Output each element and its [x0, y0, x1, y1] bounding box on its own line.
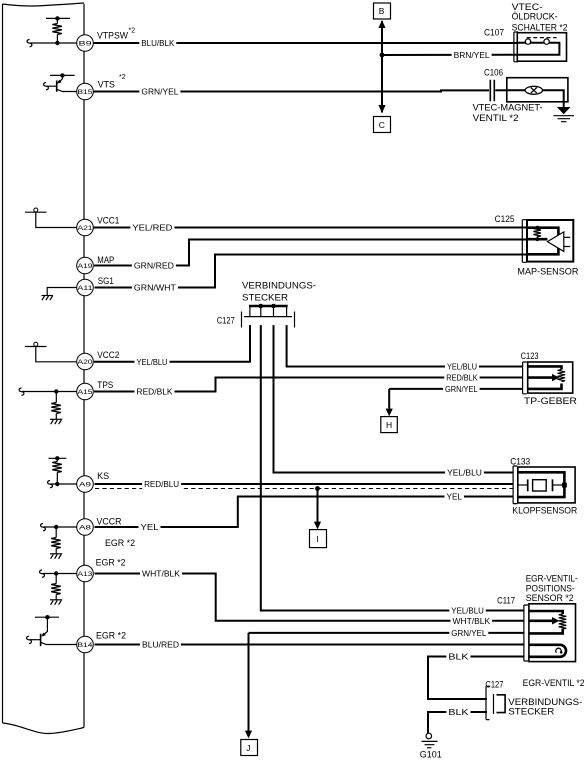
arrow to off-page connector J — [245, 633, 252, 739]
wire label YEL/BLU (A20) — [135, 357, 170, 367]
svg-text:YEL: YEL — [447, 493, 463, 502]
VTEC solenoid valve (VTEC-MAGNET-VENTIL) — [507, 78, 568, 102]
label C117 — [497, 595, 515, 606]
wire GRN/YEL (B15 to VTEC solenoid valve C106) — [93, 90, 508, 91]
wire C127 pin4 to TP sensor YEL/BLU — [287, 325, 523, 366]
connector C107 — [514, 32, 518, 62]
label C125 — [495, 214, 515, 225]
wire label YEL/BLU (TP sensor) — [445, 361, 479, 371]
wire label RED/BLK (TP sensor) — [444, 372, 479, 382]
wire label RED/BLK (A15) — [135, 386, 175, 396]
label VTEC-MAGNET-VENTIL *2 — [473, 102, 543, 124]
svg-text:B15: B15 — [78, 89, 93, 96]
svg-text:B14: B14 — [78, 642, 93, 649]
wire label BLK (EGR sensor) — [446, 651, 470, 661]
svg-text:*2: *2 — [129, 28, 136, 35]
wire label GRN/YEL (EGR sensor) — [449, 628, 488, 638]
wire label BLU/RED (B14) — [140, 639, 181, 649]
wire label YEL (knock sensor) — [445, 491, 465, 501]
svg-text:YEL/RED: YEL/RED — [132, 224, 172, 233]
pin A8 — [77, 519, 94, 536]
ground at VTEC solenoid valve — [554, 102, 575, 122]
junction dot BRN/YEL tee — [380, 53, 385, 58]
svg-text:B: B — [379, 6, 385, 16]
resistor (pull-down) with chassis ground at A13 — [50, 571, 62, 604]
svg-text:BRN/YEL: BRN/YEL — [454, 51, 490, 60]
wire label YEL (A8) — [139, 522, 161, 532]
pin A13 — [77, 565, 94, 582]
svg-text:KS: KS — [97, 471, 109, 481]
pin name VTS *2 — [98, 74, 126, 90]
svg-text:GRN/WHT: GRN/WHT — [134, 284, 176, 293]
svg-text:J: J — [246, 743, 250, 753]
wire BLK (EGR sensor ground to joint connector C127) — [428, 657, 524, 700]
resistor (pull-up) at B9 — [46, 16, 70, 45]
off-page connector I — [310, 530, 327, 548]
off-page connector J — [241, 740, 258, 756]
svg-text:C123: C123 — [521, 351, 539, 362]
pin A21 — [77, 219, 94, 236]
pin name SG1 — [98, 276, 114, 286]
label C127 (bottom) — [485, 680, 503, 691]
svg-text:STECKER: STECKER — [242, 293, 288, 304]
connector C117 — [524, 605, 528, 661]
svg-text:ÖLDRUCK-: ÖLDRUCK- — [512, 12, 558, 23]
label TP-GEBER — [524, 396, 577, 407]
joint connector C127 (VERBINDUNGS-STECKER) — [242, 304, 295, 328]
label C123 — [521, 351, 539, 362]
wire label GRN/YEL (B15) — [139, 86, 180, 96]
label C127 (top joint connector) — [217, 315, 235, 326]
svg-text:GRN/RED: GRN/RED — [134, 262, 174, 271]
transistor (driver) at B15 — [44, 73, 77, 92]
svg-text:G101: G101 — [420, 750, 442, 761]
pin B9 — [77, 35, 94, 52]
wire GRN/YEL (off-page J to EGR position sensor) — [249, 632, 525, 634]
svg-text:GRN/YEL: GRN/YEL — [445, 385, 478, 394]
svg-text:C133: C133 — [510, 457, 530, 468]
wire stub at B9 (harness break) — [27, 40, 77, 47]
wire stub at A15 (harness break) — [19, 388, 77, 395]
wire YEL (A8 VCCR to knock sensor) — [95, 497, 514, 528]
MAP sensor — [527, 220, 573, 262]
wire label YEL/RED — [130, 222, 174, 232]
svg-text:VTEC-MAGNET-: VTEC-MAGNET- — [473, 102, 543, 113]
pin name MAP — [97, 255, 114, 265]
arrow to off-page connector I — [314, 489, 321, 530]
pin A11 — [77, 279, 94, 296]
wire label GRN/YEL (TP sensor) — [443, 384, 480, 394]
svg-text:A11: A11 — [78, 285, 93, 292]
pin B14 — [77, 636, 94, 653]
svg-text:KLOPFSENSOR: KLOPFSENSOR — [512, 506, 577, 517]
wire RED/BLK (A15 to TP sensor) — [94, 378, 523, 392]
svg-text:EGR *2: EGR *2 — [96, 558, 126, 568]
svg-text:C117: C117 — [497, 595, 515, 606]
wire C127 pin2 to EGR sensor YEL/BLU — [261, 325, 524, 610]
label EGR *2 (floating, below VCCR) — [105, 538, 135, 548]
svg-text:C107: C107 — [484, 27, 504, 38]
svg-text:YEL/BLU: YEL/BLU — [137, 358, 168, 367]
svg-text:B9: B9 — [79, 41, 92, 48]
svg-text:BLU/RED: BLU/RED — [142, 641, 179, 650]
svg-text:A13: A13 — [78, 571, 93, 578]
wire label YEL/BLU (knock sensor) — [445, 467, 484, 477]
wire GRN/YEL (off-page H to TP sensor) — [389, 388, 522, 390]
junction dot on shield — [315, 486, 320, 491]
wire BLU/BLK (B9 to VTEC oil pressure switch) — [93, 42, 518, 44]
wire BLK (joint connector C127 to G101) — [428, 712, 487, 733]
svg-text:VCC2: VCC2 — [97, 350, 119, 360]
svg-text:BLU/BLK: BLU/BLK — [141, 39, 175, 48]
wire YEL/BLU (A20 to joint connector C127 pin1) — [94, 325, 250, 362]
ground G101 — [422, 733, 438, 748]
pin name VTPSW *2 — [97, 28, 135, 41]
ECU boundary (torn box) — [3, 3, 85, 734]
svg-text:RED/BLK: RED/BLK — [446, 374, 478, 383]
connector C133 — [513, 466, 517, 504]
svg-text:C127: C127 — [485, 680, 503, 691]
label VERBINDUNGS-STECKER (top) — [242, 280, 316, 303]
connector C125 — [522, 220, 526, 263]
svg-text:BLK: BLK — [448, 653, 469, 662]
joint connector C127 (bottom) — [486, 686, 505, 719]
svg-text:SENSOR *2: SENSOR *2 — [526, 593, 574, 604]
svg-text:A9: A9 — [79, 482, 91, 489]
EGR valve position sensor (potentiometer) — [529, 604, 576, 662]
power symbol at A21 — [25, 208, 77, 228]
wire label WHT/BLK (A13) — [140, 568, 182, 578]
svg-text:SG1: SG1 — [98, 276, 114, 286]
wire label BRN/YEL — [452, 50, 492, 60]
svg-text:VCCR: VCCR — [97, 516, 122, 526]
wire BRN/YEL (switch return to B-C trunk) — [382, 54, 518, 56]
label KLOPFSENSOR — [512, 506, 577, 517]
label C106 — [484, 67, 503, 78]
svg-text:A8: A8 — [79, 525, 91, 532]
pin name EGR *2 (A13) — [96, 558, 126, 568]
wire label BLU/BLK — [139, 38, 176, 48]
svg-text:H: H — [386, 420, 392, 430]
svg-text:BLK: BLK — [448, 708, 469, 717]
pin A15 — [77, 383, 94, 400]
power symbol at A20 — [25, 342, 77, 362]
wire BLU/RED (B14 to EGR valve) — [95, 644, 525, 646]
wire label BLK (to G101) — [446, 707, 470, 717]
wire label GRN/RED — [132, 260, 176, 270]
resistor (pull-up) at A9 — [49, 456, 67, 486]
off-page connector C — [374, 117, 391, 133]
svg-text:TPS: TPS — [97, 380, 113, 390]
svg-text:A15: A15 — [78, 389, 93, 396]
wire label WHT/BLK (EGR sensor) — [451, 616, 493, 626]
svg-text:WHT/BLK: WHT/BLK — [142, 570, 181, 579]
resistor (pull-down) with chassis ground at A8 — [50, 525, 62, 559]
TP sensor (TP-GEBER, potentiometer) — [528, 362, 573, 393]
svg-text:STECKER: STECKER — [508, 707, 554, 718]
svg-text:EGR *2: EGR *2 — [96, 630, 126, 640]
svg-text:WHT/BLK: WHT/BLK — [453, 617, 491, 626]
svg-text:*2: *2 — [119, 74, 126, 81]
off-page connector B — [374, 3, 391, 19]
label G101 — [420, 750, 442, 761]
label C107 — [484, 27, 504, 38]
svg-text:RED/BLK: RED/BLK — [137, 388, 174, 397]
svg-text:C106: C106 — [484, 67, 503, 78]
pin name VCC2 — [97, 350, 119, 360]
wire C127 pin3 to knock sensor YEL/BLU — [274, 325, 514, 472]
svg-text:A19: A19 — [78, 263, 93, 270]
label EGR-VENTIL-POSITIONS-SENSOR *2 — [526, 573, 578, 604]
connector C123 — [523, 362, 527, 394]
pin name TPS — [97, 380, 113, 390]
VTEC oil pressure switch (VTEC-OELDRUCKSCHALTER) — [517, 33, 566, 62]
svg-text:I: I — [316, 534, 318, 544]
pin name VCC1 — [97, 216, 119, 226]
wire stub at A13 (harness break) — [40, 570, 77, 577]
arrow to off-page connector H — [386, 389, 393, 417]
svg-text:YEL/BLU: YEL/BLU — [451, 607, 484, 616]
svg-text:TP-GEBER: TP-GEBER — [524, 396, 577, 407]
svg-text:EGR *2: EGR *2 — [105, 538, 135, 548]
shield (dashed) of knock sensor wire — [95, 488, 513, 490]
knock sensor (KLOPFSENSOR) — [518, 467, 575, 503]
svg-text:EGR-VENTIL *2: EGR-VENTIL *2 — [523, 678, 585, 689]
pin name KS — [97, 471, 109, 481]
svg-text:C: C — [379, 120, 385, 130]
svg-text:GRN/YEL: GRN/YEL — [451, 629, 486, 638]
svg-text:MAP-SENSOR: MAP-SENSOR — [517, 266, 578, 277]
wire vertical B-C trunk — [378, 20, 385, 113]
pin A20 — [77, 353, 94, 370]
wire label RED/BLU (A9) — [142, 479, 181, 492]
wire GRN/RED (A19 to MAP sensor) — [94, 240, 528, 266]
wire WHT/BLK (A13 to EGR position sensor) — [95, 574, 525, 621]
svg-text:C127: C127 — [217, 315, 235, 326]
label EGR-VENTIL *2 — [523, 678, 585, 689]
wire stub at A8 (harness break) — [41, 524, 77, 531]
off-page connector H — [381, 417, 398, 433]
resistor (pull-down) with chassis ground at A15 — [50, 389, 62, 424]
chassis ground at A11 — [42, 288, 78, 301]
svg-text:VTPSW: VTPSW — [97, 31, 129, 41]
svg-text:A20: A20 — [78, 359, 93, 366]
pin name VCCR — [97, 516, 122, 526]
svg-text:YEL/BLU: YEL/BLU — [447, 469, 482, 478]
wire label YEL/BLU (EGR sensor) — [449, 605, 486, 615]
wire label GRN/WHT — [132, 282, 178, 292]
svg-text:GRN/YEL: GRN/YEL — [141, 88, 178, 97]
label VERBINDUNGS-STECKER (bottom) — [508, 697, 582, 718]
label C133 — [510, 457, 530, 468]
transistor (driver) at B14 — [27, 615, 77, 646]
svg-text:VENTIL *2: VENTIL *2 — [473, 113, 519, 124]
svg-text:A21: A21 — [78, 225, 93, 232]
wire stub at A9 (harness break) — [48, 481, 78, 488]
pin name EGR *2 (B14) — [96, 630, 126, 640]
svg-text:YEL: YEL — [141, 523, 160, 532]
pin B15 — [77, 83, 94, 100]
svg-text:YEL/BLU: YEL/BLU — [447, 363, 477, 372]
svg-text:MAP: MAP — [97, 255, 114, 265]
svg-text:RED/BLU: RED/BLU — [144, 480, 179, 489]
svg-text:VTS: VTS — [98, 80, 115, 90]
label MAP-SENSOR — [517, 266, 578, 277]
svg-text:VERBINDUNGS-: VERBINDUNGS- — [242, 280, 316, 291]
label VTEC-OELDRUCK-SCHALTER *2 — [512, 2, 568, 34]
pin A9 — [77, 476, 94, 493]
svg-text:SCHALTER *2: SCHALTER *2 — [512, 23, 568, 34]
EGR valve solenoid coil (EGR-VENTIL) — [529, 645, 566, 657]
wire RED/BLU (A9 knock signal, shielded) — [95, 483, 514, 485]
wire YEL/RED (A21 to MAP sensor) — [94, 227, 528, 229]
connector C106 — [490, 80, 494, 101]
pin A19 — [77, 257, 94, 274]
wire GRN/WHT (A11 to MAP sensor) — [95, 255, 528, 288]
svg-text:VCC1: VCC1 — [97, 216, 119, 226]
svg-text:C125: C125 — [495, 214, 515, 225]
